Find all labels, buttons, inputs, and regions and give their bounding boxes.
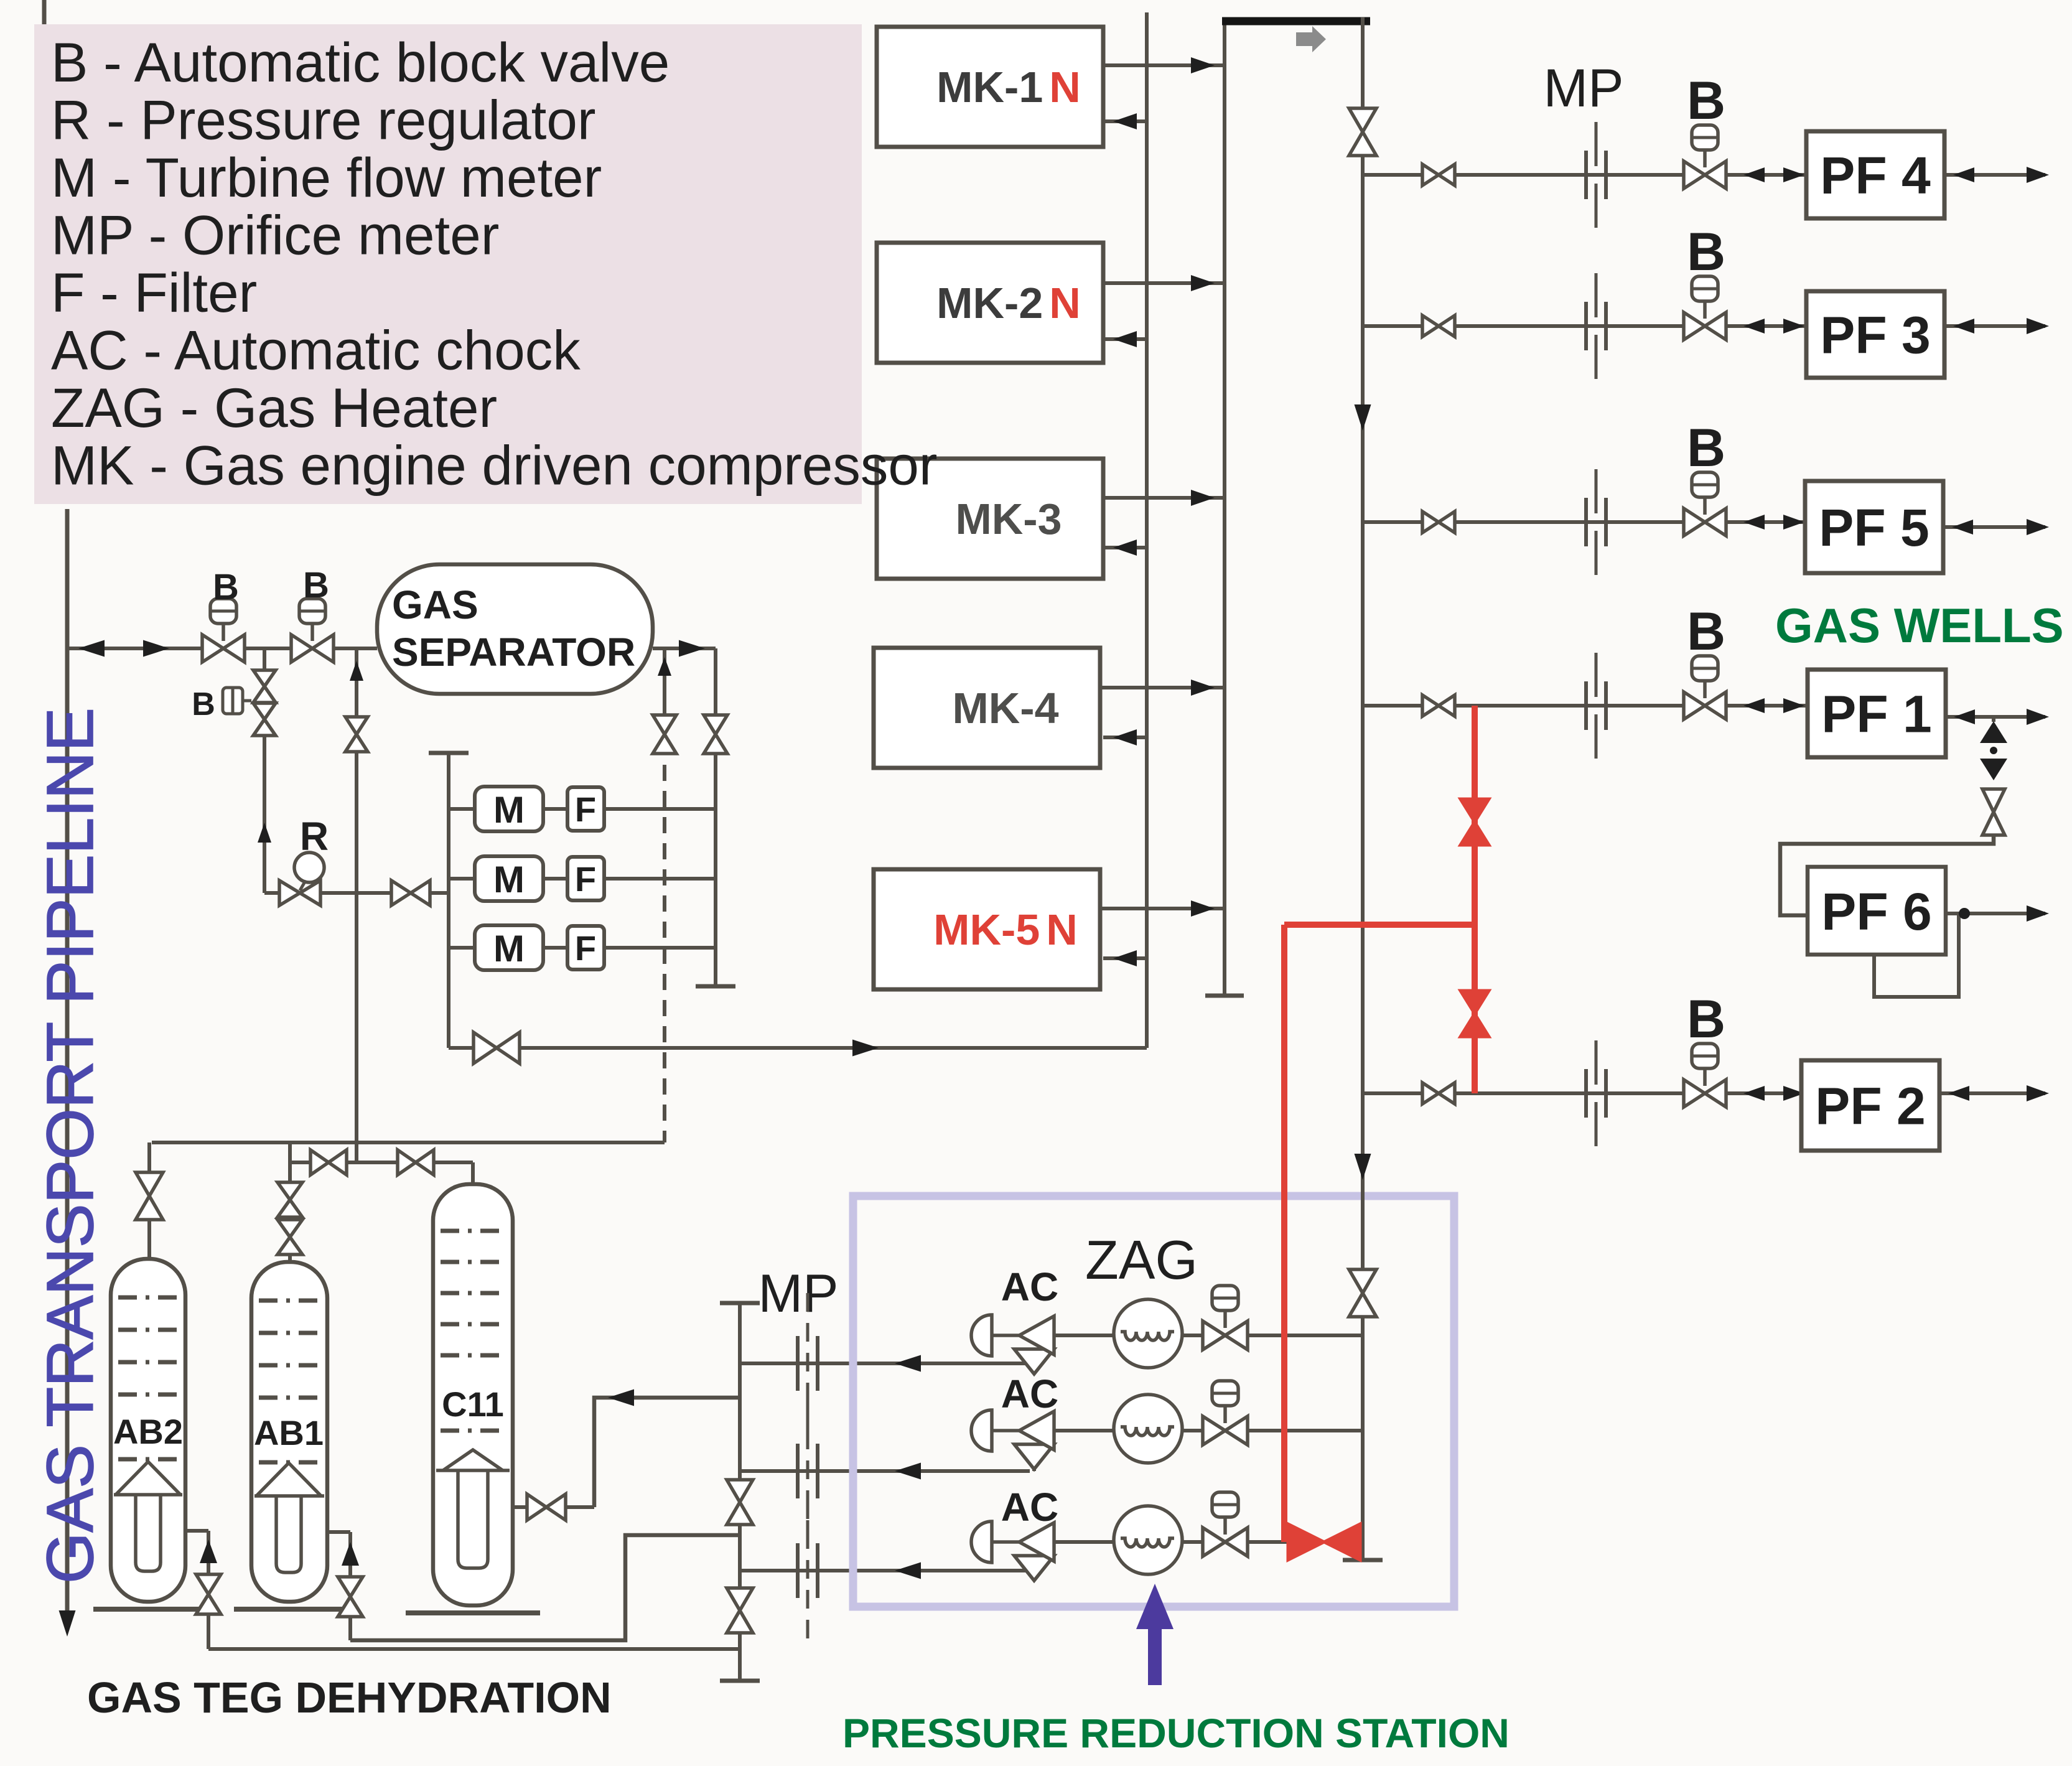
flow arrow MK-2 discharge <box>1191 275 1215 291</box>
valve on export riser <box>345 717 368 752</box>
orifice meter MP on PF 5 line <box>1595 469 1598 513</box>
svg-text:B: B <box>1687 989 1725 1049</box>
flow arrow down manifold lower <box>1355 1154 1371 1180</box>
wire meter row 2 right <box>604 877 716 881</box>
pressure reduction station boundary <box>853 1196 1454 1607</box>
wire pipeline top stub <box>42 0 47 29</box>
wire PF1-PF6 tee <box>1992 717 1995 722</box>
end cap meter right header <box>696 984 735 989</box>
orifice meter MP on PF 3 line <box>1595 273 1598 317</box>
wire C11 bottom outlet <box>513 1505 594 1509</box>
well PF 5 <box>1805 481 1943 573</box>
vessel AB1 adsorber <box>251 1262 327 1602</box>
flow arrows at PF 5 inlet <box>1743 515 1765 530</box>
wire heater 2 to valve <box>1182 1429 1203 1432</box>
wire meter row 1 right <box>604 807 716 811</box>
flow arrow down manifold upper <box>1355 404 1371 431</box>
svg-text:ZAG: ZAG <box>1085 1229 1198 1291</box>
valve B on PF 1 line <box>1703 681 1707 698</box>
flow arrow MK-3 discharge <box>1191 490 1215 506</box>
valve on C11 header right <box>398 1150 434 1175</box>
red valve withdrawal <box>1288 1524 1360 1560</box>
flow arrow MK-3 suction <box>1113 540 1137 556</box>
wire PF 6 outlet <box>1946 912 2045 915</box>
wire AC3 to heater <box>1054 1540 1114 1544</box>
flow arrows at PF 2 inlet <box>1743 1086 1765 1101</box>
end cap MP header bottom <box>720 1679 760 1683</box>
svg-text:F - Filter: F - Filter <box>51 261 257 324</box>
compressor MK-2N <box>877 243 1103 363</box>
svg-text:B: B <box>1687 602 1725 661</box>
flow arrow left MP line 1 <box>895 1355 921 1372</box>
svg-text:MP - Orifice meter: MP - Orifice meter <box>51 204 499 266</box>
svg-text:PF 1: PF 1 <box>1821 685 1931 744</box>
orifice meter MP3 <box>806 1500 810 1641</box>
svg-text:B: B <box>192 686 215 722</box>
wire AC drop 3 <box>1032 1571 1036 1578</box>
wire M2 to F2 <box>543 877 567 881</box>
svg-text:SEPARATOR: SEPARATOR <box>392 630 635 675</box>
vessel GAS SEPARATOR <box>377 564 653 694</box>
end cap discharge collector <box>1205 994 1244 998</box>
svg-text:ZAG - Gas Heater: ZAG - Gas Heater <box>51 376 497 439</box>
well PF 1 <box>1808 670 1946 757</box>
flow arrow left MP line 2 <box>895 1463 921 1480</box>
wire MK-3 discharge <box>1103 496 1225 500</box>
wire heater line 3 to red valve <box>1248 1540 1287 1544</box>
flow arrow MK-5 discharge <box>1191 900 1215 917</box>
well PF 4 <box>1806 131 1944 218</box>
orifice meter MP on PF 4 line <box>1595 122 1598 166</box>
valve MP header lower <box>727 1588 753 1633</box>
svg-text:MK-5N: MK-5N <box>933 905 1078 954</box>
flow arrows PF 2 outlet <box>1948 1086 1969 1101</box>
wire main line to separator <box>67 647 377 650</box>
vessel C11 column <box>433 1184 513 1605</box>
red wire bypass vertical right <box>1472 706 1478 1093</box>
valve AB2 outlet <box>196 1574 221 1614</box>
wire meter row 1 left <box>449 807 477 811</box>
wire AC drop 2 <box>1032 1467 1036 1471</box>
flow arrow up AB1 outlet <box>342 1542 359 1566</box>
svg-text:GAS WELLS: GAS WELLS <box>1775 598 2064 653</box>
svg-text:PF 5: PF 5 <box>1819 498 1929 557</box>
flow arrow MK-1 suction <box>1113 113 1137 129</box>
automatic chock AC1 <box>971 1315 992 1356</box>
svg-text:GAS TRANSPORT PIPELINE: GAS TRANSPORT PIPELINE <box>34 708 107 1584</box>
svg-text:AC - Automatic chock: AC - Automatic chock <box>51 319 581 381</box>
wire MK-4 suction <box>1103 736 1147 739</box>
wire manifold to PF 2 <box>1363 1091 1801 1095</box>
ground AB2 <box>93 1607 203 1612</box>
flow arrow up export riser <box>350 661 363 681</box>
svg-text:MK-4: MK-4 <box>952 684 1058 732</box>
wire separator outlet right <box>653 647 716 650</box>
gas heater ZAG3 <box>1114 1506 1182 1574</box>
flow arrow left on main line <box>78 640 105 657</box>
valve AB1 outlet <box>338 1577 363 1617</box>
red wire well bypass horizontal <box>1284 922 1475 928</box>
wire MK-3 suction <box>1103 546 1147 549</box>
svg-text:PF 2: PF 2 <box>1815 1077 1925 1136</box>
red wire withdrawal vertical <box>1281 925 1287 1542</box>
compressor MK-1N <box>877 27 1103 147</box>
wire manifold to PF 1 <box>1363 704 1808 708</box>
vessel AB2 adsorber <box>111 1259 185 1602</box>
flow arrows PF 1 outlet <box>1954 709 1975 724</box>
wire regulator line to meter header <box>264 891 449 895</box>
wire meter right header <box>714 648 717 986</box>
wire valve to PF 6 <box>1780 836 1994 915</box>
turbine flow meter M3 <box>475 925 543 970</box>
wire manifold to PF 4 <box>1363 173 1806 177</box>
wire MK-2 discharge <box>1103 281 1225 285</box>
wire dehydration collector <box>152 1141 665 1144</box>
well PF 3 <box>1806 291 1944 378</box>
orifice meter MP2 <box>806 1401 810 1541</box>
wire AC2 to heater <box>1054 1429 1114 1432</box>
svg-text:MK - Gas engine driven compres: MK - Gas engine driven compressor <box>51 434 938 497</box>
svg-text:M: M <box>493 928 525 969</box>
svg-text:B - Automatic block valve: B - Automatic block valve <box>51 31 670 93</box>
wire C11 top elbow <box>471 1162 475 1184</box>
wire gas transport pipeline vertical <box>65 509 70 1625</box>
automatic chock AC2 <box>971 1410 992 1451</box>
wire AC drop 1 <box>1032 1363 1036 1371</box>
flow arrow up on branch <box>258 823 271 843</box>
svg-text:AC: AC <box>1001 1371 1058 1416</box>
valve B1 automatic block valve <box>222 624 225 641</box>
actuator B of branch valve <box>223 688 243 714</box>
flow arrow MK-2 suction <box>1113 331 1137 347</box>
flow arrow left C11 feed <box>608 1390 634 1406</box>
wire MK-1 suction <box>1103 119 1147 123</box>
node junction PF 6 outlet <box>1959 908 1970 919</box>
valve AB1 top riser upper <box>278 1182 302 1217</box>
svg-text:F: F <box>575 790 596 829</box>
wire MK-1 discharge <box>1103 63 1225 67</box>
wire MP meter line 3 <box>740 1569 1030 1572</box>
wire branch to regulator R <box>263 648 266 893</box>
flow arrows at PF 4 inlet <box>1743 167 1765 182</box>
svg-text:AC: AC <box>1001 1485 1058 1530</box>
flow arrow gray on top header <box>1296 26 1326 52</box>
flow arrows at PF 1 inlet <box>1743 698 1765 713</box>
valve gate on PF 3 line <box>1422 315 1455 337</box>
valve on dashed branch <box>653 715 676 754</box>
flow arrow right suction line <box>852 1040 879 1057</box>
well PF 6 <box>1808 867 1946 955</box>
svg-text:AB1: AB1 <box>254 1413 324 1452</box>
flow arrow up AB2 outlet <box>200 1539 217 1563</box>
wire MP header <box>738 1303 742 1681</box>
valve on meter right header <box>704 715 727 754</box>
orifice meter MP on PF 2 line <box>1595 1040 1598 1085</box>
wire MK-2 suction <box>1103 337 1147 341</box>
flow arrow MK-4 discharge <box>1191 680 1215 696</box>
flow arrow left MP line 3 <box>895 1563 921 1579</box>
wire AC1 to heater <box>1054 1334 1114 1337</box>
wire manifold to PF 3 <box>1363 324 1806 328</box>
flow arrow up on dashed branch <box>658 657 671 676</box>
end cap meter left header <box>429 751 469 755</box>
compressor MK-3 <box>877 459 1103 579</box>
valve gate on PF 2 line <box>1422 1083 1455 1104</box>
wire AB2 bottom outlet <box>184 1529 208 1533</box>
svg-text:B: B <box>1687 71 1725 131</box>
ground AB1 <box>234 1607 343 1612</box>
svg-text:M: M <box>493 859 525 900</box>
valve B on PF 3 line <box>1703 301 1707 319</box>
well PF 6 shadow box <box>1874 913 1959 997</box>
wire PF 4 outlet <box>1944 173 2045 177</box>
ground C11 <box>406 1610 540 1615</box>
wire AB1 top riser <box>288 1142 292 1262</box>
valve on PF6 line <box>1982 789 2005 835</box>
valve with actuator line 2 <box>1223 1406 1227 1423</box>
valve with actuator line 3 <box>1223 1517 1227 1535</box>
wire main well manifold <box>1361 17 1365 1560</box>
flow arrows PF 3 outlet <box>1953 319 1974 334</box>
wire PF 5 outlet <box>1943 525 2045 529</box>
svg-text:R - Pressure regulator: R - Pressure regulator <box>51 89 596 151</box>
wire C11 outlet riser <box>594 1398 740 1507</box>
orifice meter MP1 <box>806 1293 810 1434</box>
flow arrow up on tee <box>1980 721 2007 743</box>
gas heater ZAG1 <box>1114 1299 1182 1368</box>
svg-text:MK-3: MK-3 <box>955 495 1062 543</box>
svg-text:MK-2N: MK-2N <box>936 279 1081 327</box>
svg-text:GAS: GAS <box>392 582 478 627</box>
wire MP meter line 2 <box>740 1469 1030 1473</box>
turbine flow meter M2 <box>475 856 543 901</box>
end cap MP header top <box>720 1301 760 1306</box>
wire MK-5 suction <box>1103 956 1147 960</box>
red valve bypass lower <box>1460 991 1489 1037</box>
valve B on PF 4 line <box>1703 150 1707 167</box>
flow arrow MK-1 discharge <box>1191 57 1215 73</box>
well PF 2 <box>1801 1060 1939 1151</box>
valve gate on PF 5 line <box>1422 512 1455 533</box>
wire AB2 outlet to header <box>208 1647 740 1651</box>
svg-text:PF 4: PF 4 <box>1820 146 1931 205</box>
filter F2 <box>567 857 604 900</box>
svg-text:F: F <box>575 859 596 899</box>
wire compressor discharge collector <box>1223 19 1226 996</box>
svg-text:C11: C11 <box>442 1385 504 1424</box>
compressor MK-5N <box>874 869 1100 989</box>
flow arrow MK-5 suction <box>1113 950 1137 966</box>
wire MK-5 discharge <box>1100 907 1225 910</box>
filter F1 <box>567 787 604 831</box>
wire manifold to PF 5 <box>1363 520 1805 524</box>
wire AB2 top riser <box>147 1142 151 1259</box>
flow arrow right separator outlet <box>679 640 705 657</box>
valve gate on PF 1 line <box>1422 695 1455 716</box>
svg-text:PRESSURE REDUCTION STATION: PRESSURE REDUCTION STATION <box>842 1710 1510 1756</box>
wire meter left header <box>447 753 450 1048</box>
valve AB1 top riser lower <box>278 1220 302 1254</box>
flow arrow PF 6 outlet <box>2027 905 2049 922</box>
end cap main manifold bottom <box>1343 1558 1383 1563</box>
valve C11 outlet <box>527 1494 566 1520</box>
valve gate on PF 4 line <box>1422 164 1455 185</box>
wire heater 3 to valve <box>1182 1540 1203 1544</box>
valve with actuator line 1 <box>1223 1310 1227 1328</box>
svg-text:B: B <box>1687 418 1725 478</box>
valve on suction line <box>474 1032 520 1063</box>
wire meter row 2 left <box>449 877 477 881</box>
svg-text:AC: AC <box>1001 1264 1058 1309</box>
svg-text:PF 6: PF 6 <box>1821 882 1931 941</box>
purple arrow pressure reduction station <box>1136 1584 1174 1685</box>
wire PF 2 outlet <box>1939 1091 2045 1095</box>
valve on regulator line <box>391 881 430 905</box>
red valve bypass upper <box>1460 799 1489 845</box>
flow arrow MK-4 suction <box>1113 729 1137 745</box>
valve main manifold top <box>1349 108 1376 156</box>
compressor MK-4 <box>874 648 1100 768</box>
wire discharge top header (thick) <box>1222 17 1370 26</box>
wire M3 to F3 <box>543 946 567 950</box>
wire metering to compressor suction <box>449 1046 1147 1050</box>
wire compressor suction riser <box>1145 12 1149 1048</box>
wire heater 1 to valve <box>1182 1334 1203 1337</box>
wire meter row 3 left <box>449 946 477 950</box>
valve B on PF 2 line <box>1703 1068 1707 1086</box>
valve main manifold in station <box>1349 1269 1376 1317</box>
svg-text:PF 3: PF 3 <box>1820 306 1930 365</box>
svg-text:M: M <box>493 789 525 831</box>
automatic chock AC3 <box>971 1521 992 1563</box>
svg-text:MP: MP <box>1544 58 1624 118</box>
wire PF 1 outlet <box>1946 715 2045 719</box>
svg-text:M - Turbine flow meter: M - Turbine flow meter <box>51 146 602 208</box>
svg-text:MP: MP <box>758 1264 839 1324</box>
wire heater line 2 to main riser <box>1248 1429 1363 1432</box>
filter F3 <box>567 926 604 969</box>
wire MK-4 discharge <box>1100 686 1225 689</box>
svg-text:B: B <box>303 565 329 605</box>
svg-text:AB2: AB2 <box>113 1412 183 1451</box>
wire M1 to F1 <box>543 807 567 811</box>
valve block on branch <box>253 670 276 703</box>
wire branch export riser <box>355 648 358 1162</box>
flow arrows PF 4 outlet <box>1953 167 1974 182</box>
turbine flow meter M1 <box>475 787 543 831</box>
wire separator outlet dashed branch <box>663 648 666 712</box>
valve MP header upper <box>727 1480 753 1525</box>
svg-text:F: F <box>575 928 596 968</box>
svg-text:MK-1N: MK-1N <box>936 63 1081 111</box>
wire AB1 outlet to header <box>350 1535 740 1640</box>
gas heater ZAG2 <box>1114 1395 1182 1463</box>
wire MP meter line 1 <box>740 1362 1030 1365</box>
wire meter row 3 right <box>604 946 716 950</box>
flow arrow right on main line <box>143 640 169 657</box>
svg-text:B: B <box>213 567 239 607</box>
flow arrows at PF 3 inlet <box>1743 319 1765 334</box>
flow arrow down pipeline <box>59 1610 76 1637</box>
orifice meter MP on PF 1 line <box>1595 653 1598 697</box>
legend box <box>34 24 862 504</box>
flow arrow down on tee <box>1980 759 2007 780</box>
wire heater line 1 to main riser <box>1248 1334 1363 1337</box>
valve B on PF 5 line <box>1703 497 1707 515</box>
node dot on tee <box>1990 747 1997 754</box>
wire C11 top header <box>290 1161 473 1164</box>
wire PF 3 outlet <box>1944 324 2045 328</box>
valve on C11 header left <box>310 1150 347 1175</box>
regulator R <box>279 881 320 905</box>
wire AB1 bottom outlet <box>325 1530 350 1534</box>
valve AB2 top riser <box>136 1172 163 1220</box>
svg-text:GAS TEG DEHYDRATION: GAS TEG DEHYDRATION <box>87 1673 612 1722</box>
flow arrows PF 5 outlet <box>1952 520 1973 535</box>
svg-text:R: R <box>300 814 329 859</box>
valve B2 automatic block valve <box>310 624 314 641</box>
svg-text:B: B <box>1687 222 1725 282</box>
